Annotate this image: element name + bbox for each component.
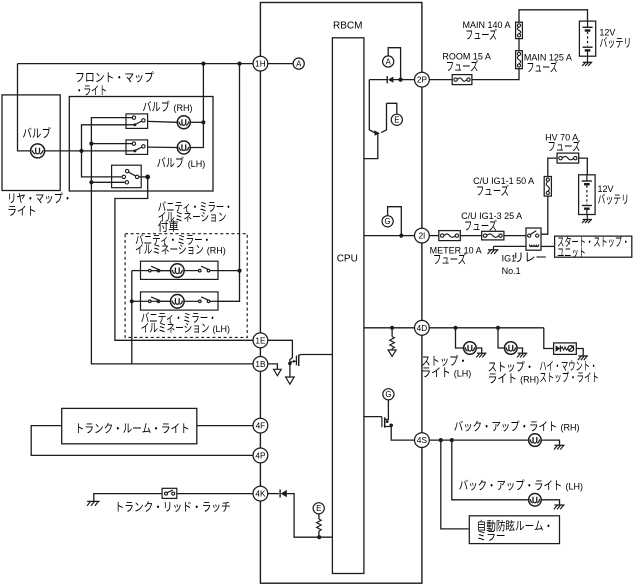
- svg-text:フューズ: フューズ: [446, 59, 479, 74]
- svg-text:フューズ: フューズ: [548, 139, 581, 154]
- svg-text:トランク・リッド・ラッチ: トランク・リッド・ラッチ: [115, 500, 231, 514]
- svg-text:4P: 4P: [255, 451, 266, 460]
- svg-text:フューズ: フューズ: [465, 27, 497, 42]
- svg-text:RBCM: RBCM: [333, 21, 362, 32]
- svg-text:1B: 1B: [255, 360, 266, 369]
- svg-text:バッテリ: バッテリ: [599, 36, 631, 50]
- svg-text:E: E: [394, 116, 399, 125]
- svg-text:バルブ: バルブ: [22, 125, 51, 140]
- svg-text:バルブ: バルブ: [157, 155, 185, 170]
- svg-text:4D: 4D: [417, 324, 428, 333]
- svg-text:フューズ: フューズ: [464, 218, 497, 233]
- svg-text:バルブ: バルブ: [142, 99, 170, 114]
- svg-text:No.1: No.1: [502, 266, 521, 276]
- svg-text:ライト: ライト: [7, 204, 36, 218]
- svg-text:ユニット: ユニット: [557, 245, 586, 259]
- svg-text:ライト: ライト: [421, 366, 451, 380]
- svg-text:(RH): (RH): [520, 374, 539, 384]
- svg-text:イルミネーション: イルミネーション: [135, 242, 204, 256]
- svg-text:1E: 1E: [255, 336, 266, 345]
- svg-text:1H: 1H: [255, 60, 266, 69]
- svg-text:フューズ: フューズ: [527, 60, 558, 75]
- svg-text:バック・アップ・ライト: バック・アップ・ライト: [454, 419, 558, 433]
- svg-text:ストップ・ライト: ストップ・ライト: [539, 370, 599, 384]
- svg-text:G: G: [385, 217, 391, 226]
- svg-text:CPU: CPU: [337, 253, 358, 264]
- svg-text:(LH): (LH): [213, 324, 231, 334]
- svg-text:フューズ: フューズ: [476, 183, 509, 198]
- svg-text:2I: 2I: [418, 232, 425, 241]
- svg-text:・ライト: ・ライト: [75, 84, 107, 98]
- svg-text:フロント・マップ: フロント・マップ: [75, 71, 154, 85]
- svg-text:バッテリ: バッテリ: [598, 193, 630, 207]
- svg-text:(RH): (RH): [207, 245, 226, 255]
- svg-text:G: G: [385, 390, 391, 399]
- svg-text:(LH): (LH): [454, 369, 472, 379]
- svg-text:ミラー: ミラー: [477, 529, 506, 543]
- svg-text:(LH): (LH): [188, 159, 206, 169]
- svg-text:4F: 4F: [256, 422, 266, 431]
- svg-text:リレー: リレー: [513, 251, 547, 265]
- svg-text:フューズ: フューズ: [433, 252, 466, 267]
- svg-text:(LH): (LH): [566, 482, 584, 492]
- svg-text:4K: 4K: [255, 490, 266, 499]
- svg-text:2P: 2P: [417, 76, 428, 85]
- svg-text:付車: 付車: [158, 220, 179, 234]
- svg-text:バック・アップ・ライト: バック・アップ・ライト: [459, 479, 563, 493]
- svg-text:(RH): (RH): [561, 422, 580, 432]
- svg-text:E: E: [316, 504, 321, 513]
- svg-text:イルミネーション: イルミネーション: [141, 321, 210, 335]
- svg-text:4S: 4S: [417, 436, 428, 445]
- svg-text:トランク・ルーム・ライト: トランク・ルーム・ライト: [75, 421, 190, 435]
- svg-text:A: A: [386, 57, 392, 66]
- svg-text:A: A: [296, 59, 302, 68]
- svg-text:(RH): (RH): [174, 103, 193, 113]
- svg-text:ライト: ライト: [488, 371, 517, 385]
